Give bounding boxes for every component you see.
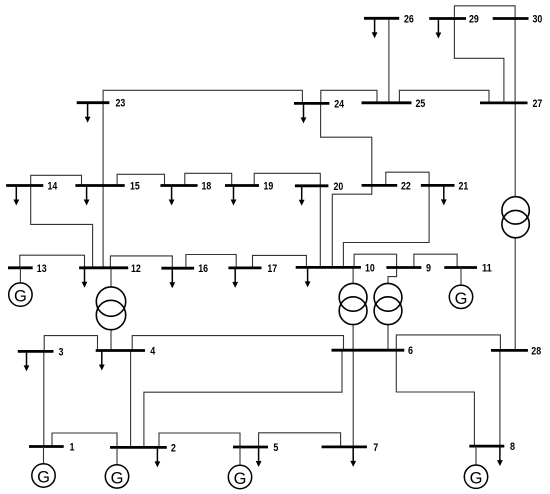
wire line 12-16 [110,256,172,268]
bus 13 [8,263,47,275]
wire line 10-21 [343,185,429,267]
wire line 4-6 [132,336,343,351]
svg-text:7: 7 [373,442,378,454]
svg-text:14: 14 [48,181,58,193]
wire line 29-30 [454,6,515,19]
load arrow bus 19 [231,187,237,206]
wire line 3-4 [44,336,97,352]
wire line 1-2 [52,433,117,447]
wire line 5-7 [259,433,341,447]
svg-text:6: 6 [408,345,413,357]
load arrow bus 16 [169,269,175,288]
wire line 9-11 [414,254,457,267]
svg-text:19: 19 [264,181,274,193]
bus 28 [491,345,541,357]
bus 16 [161,263,208,275]
generator G at bus 1 [32,447,55,488]
bus 17 [228,263,277,275]
wire line 6-28 [396,335,500,351]
wire line 9-10 [354,254,397,267]
generator G at bus 8 [464,446,487,488]
wire line 18-19 [185,173,232,185]
bus 9 [386,263,431,275]
svg-text:30: 30 [533,14,543,26]
wire bus 10 to transformer T10 [352,267,354,283]
wire line 27-29 [454,19,504,103]
wire line 22-24 [321,103,372,185]
wire line 1-3 [43,351,45,446]
svg-text:G: G [111,469,124,487]
bus 26 [364,13,414,25]
wire line 10-22 [332,185,372,267]
svg-text:G: G [37,469,50,487]
transformer T27 (27-28) [502,197,529,224]
bus 8 [469,441,515,453]
wire line 25-27 [399,90,489,103]
svg-text:27: 27 [533,98,543,110]
wire line 25-26 [388,18,390,103]
bus 10 [296,262,375,274]
wire line 15-23 [102,103,104,186]
load arrow bus 2 [155,448,161,467]
svg-text:28: 28 [531,345,541,357]
wire line 23-24 [103,90,302,103]
bus 19 [225,181,273,193]
bus 27 [480,98,542,110]
svg-text:11: 11 [482,263,492,275]
wire line 6-7 [352,350,354,447]
wire bus 12 to transformer T12 [110,268,112,287]
load arrow bus 4 [99,352,105,371]
svg-text:3: 3 [59,346,64,358]
bus 24 [294,98,345,110]
load arrow bus 7 [350,448,356,467]
svg-text:22: 22 [401,180,411,192]
transformer T9 (6-9) [374,283,402,311]
wire bus 9 to transformer T9 [388,268,397,284]
load arrow bus 26 [372,19,378,38]
load arrow bus 12 [82,269,88,288]
svg-text:8: 8 [510,441,515,453]
svg-text:29: 29 [469,14,479,26]
svg-text:5: 5 [273,442,278,454]
load arrow bus 3 [24,352,30,371]
load arrow bus 17 [232,269,238,288]
wire line 2-6 [144,350,342,447]
svg-text:G: G [455,290,468,308]
bus 2 [110,442,176,454]
bus 3 [18,346,64,358]
bus 22 [362,180,411,192]
load arrow bus 23 [85,104,91,123]
load arrow bus 15 [84,187,90,206]
generator G at bus 2 [105,447,128,488]
wire line 12-15 [102,186,104,268]
svg-text:G: G [14,288,27,306]
wire line 8-28 [499,350,501,446]
load arrow bus 21 [441,186,447,205]
svg-text:25: 25 [416,98,426,110]
load arrow bus 18 [169,187,175,206]
bus 23 [77,98,126,110]
svg-text:9: 9 [426,263,431,275]
svg-text:10: 10 [365,262,375,274]
svg-text:G: G [234,470,247,488]
generator G at bus 11 [449,268,472,309]
bus 30 [493,14,543,26]
bus 4 [96,346,156,358]
svg-text:13: 13 [37,263,47,275]
svg-text:4: 4 [150,346,156,358]
svg-text:16: 16 [198,263,208,275]
bus 5 [233,442,278,454]
wire line 14-15 [31,175,82,185]
wire transformer T27 to bus 28 [514,238,516,351]
wire line 10-17 [253,255,307,268]
wire line 24-25 [321,90,377,103]
bus 11 [444,263,492,275]
bus 12 [79,263,141,275]
svg-text:2: 2 [171,442,176,454]
generator G at bus 13 [9,268,32,307]
bus 29 [429,14,479,26]
svg-text:24: 24 [334,98,344,110]
wire line 12-13 [20,255,85,268]
wire line 6-8 [396,350,474,446]
transformer T12 (4-12) [96,287,125,316]
bus 1 [29,442,75,454]
wire line 19-20 [254,173,320,186]
svg-text:18: 18 [202,181,212,193]
load arrow bus 14 [13,187,19,206]
wire transformer T10 to bus 6 [352,325,354,351]
wire line 15-18 [117,174,164,185]
load arrow bus 24 [301,104,307,123]
wire line 10-20 [319,186,321,268]
wire line 27-28 via transformer [514,103,516,197]
load arrow bus 29 [436,20,442,39]
svg-text:26: 26 [404,13,414,25]
bus 21 [421,180,468,192]
wire line 27-30 [514,19,516,103]
load arrow bus 5 [256,448,262,467]
generator G at bus 5 [228,447,251,489]
bus 7 [322,442,379,454]
bus 6 [332,345,414,357]
svg-text:21: 21 [459,180,469,192]
wire line 21-22 [386,172,429,185]
bus 14 [6,181,58,193]
wire transformer T9 to bus 6 [387,325,389,351]
svg-text:17: 17 [267,263,277,275]
bus 25 [362,98,426,110]
svg-text:12: 12 [131,263,141,275]
svg-text:G: G [470,470,483,488]
transformer T10 (6-10) [339,283,367,311]
wire line 16-17 [186,255,236,269]
wire transformer T12 to bus 4 [110,330,112,351]
bus 15 [75,181,139,193]
svg-text:1: 1 [70,442,75,454]
svg-text:15: 15 [130,181,140,193]
wire line 12-14 [31,186,93,268]
wire line 2-4 [130,351,132,448]
load arrow bus 20 [299,187,305,206]
bus 18 [160,181,211,193]
svg-text:23: 23 [116,98,126,110]
svg-text:20: 20 [334,181,344,193]
bus 20 [295,181,343,193]
wire line 2-5 [159,433,240,447]
load arrow bus 8 [497,447,503,466]
load arrow bus 10 [305,268,311,287]
